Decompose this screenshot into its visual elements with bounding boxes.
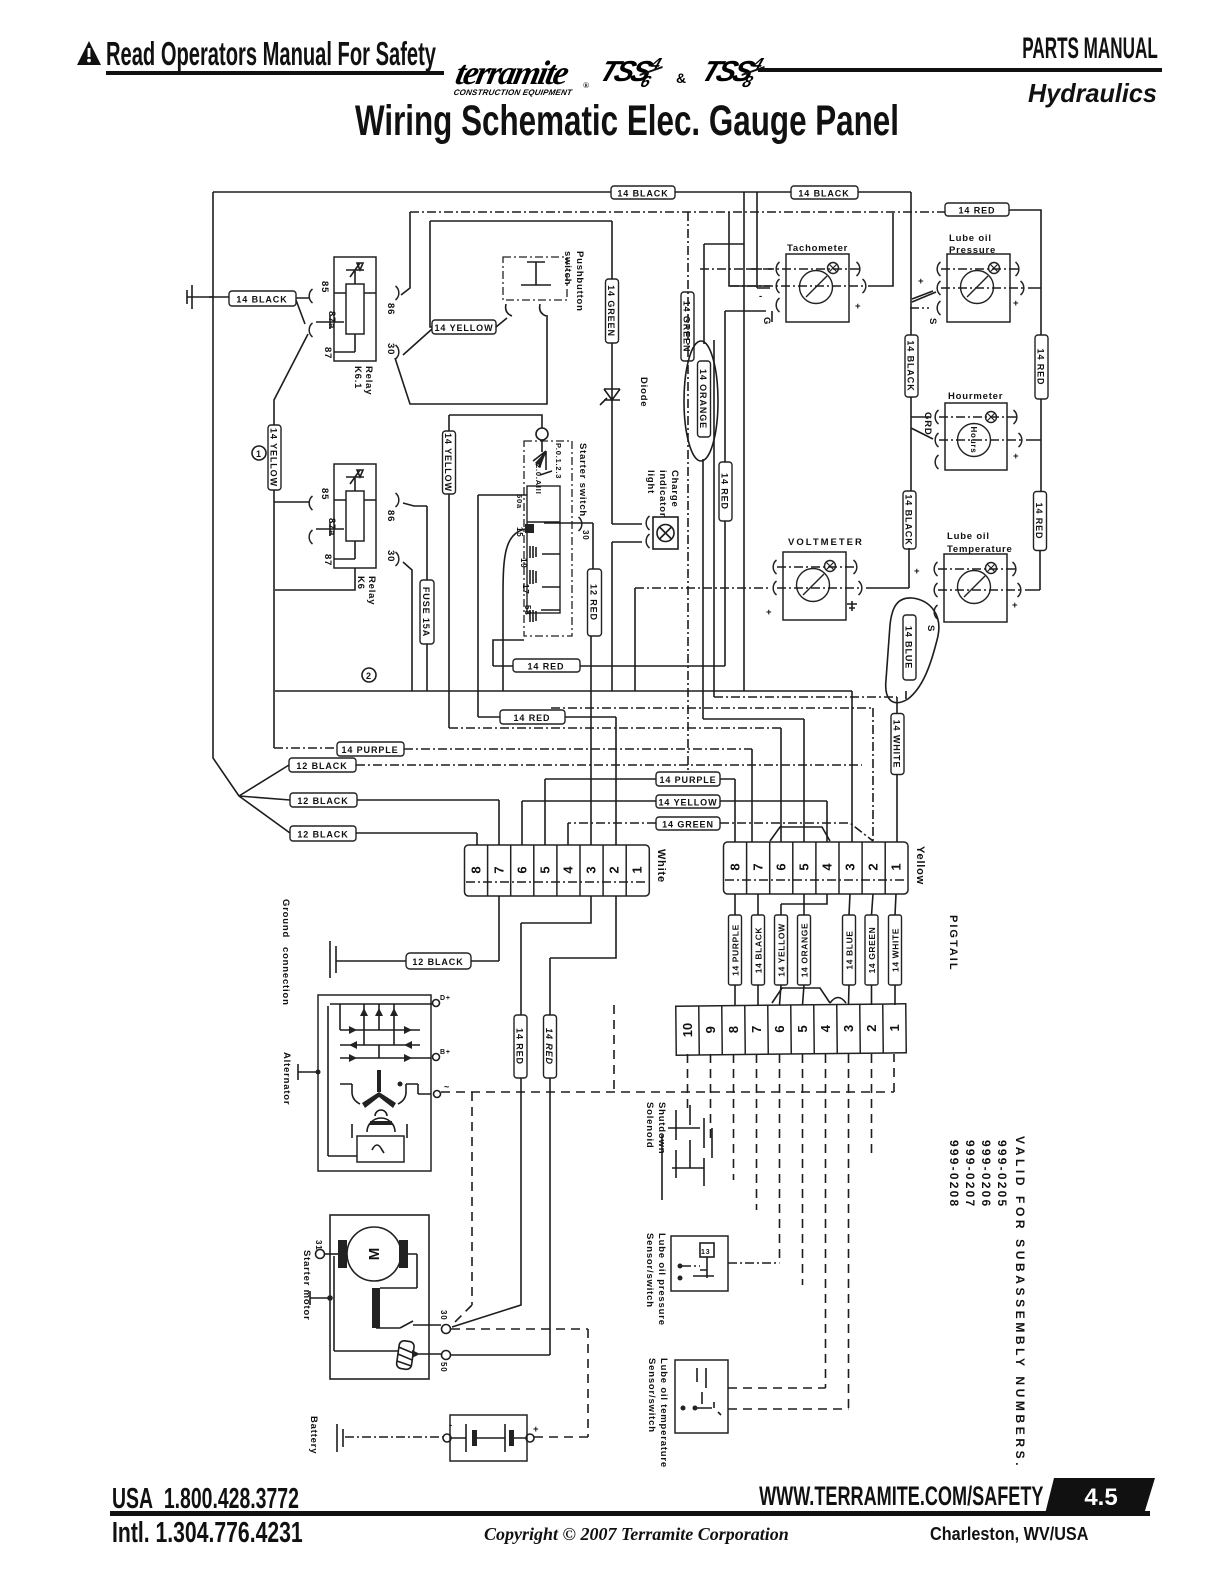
svg-text:14 RED: 14 RED	[544, 1028, 554, 1065]
svg-text:Diode: Diode	[638, 377, 649, 407]
svg-text:12 BLACK: 12 BLACK	[412, 957, 463, 967]
svg-text:4: 4	[820, 863, 835, 871]
svg-text:Starter switch: Starter switch	[577, 443, 588, 517]
svg-text:14 BLUE: 14 BLUE	[904, 626, 914, 669]
svg-text:14 GREEN: 14 GREEN	[662, 820, 714, 830]
svg-text:85: 85	[319, 488, 330, 500]
svg-text:-: -	[449, 1420, 453, 1431]
svg-text:14 RED: 14 RED	[1036, 349, 1046, 386]
svg-text:2: 2	[864, 1024, 879, 1031]
svg-text:5: 5	[795, 1025, 810, 1032]
svg-text:+: +	[1013, 298, 1019, 309]
svg-text:4: 4	[818, 1024, 833, 1032]
svg-text:Starter motor: Starter motor	[301, 1250, 312, 1321]
svg-text:14 BLACK: 14 BLACK	[904, 494, 914, 545]
svg-text:87a: 87a	[326, 311, 337, 329]
svg-text:6: 6	[772, 1025, 787, 1032]
svg-text:FUSE 15A: FUSE 15A	[421, 587, 431, 637]
svg-text:86: 86	[385, 303, 396, 315]
svg-text:12 RED: 12 RED	[589, 584, 599, 621]
svg-text:VALID FOR SUBASSEMBLY NUMBERS.: VALID FOR SUBASSEMBLY NUMBERS.	[1013, 1136, 1027, 1469]
svg-text:14 PURPLE: 14 PURPLE	[341, 745, 398, 755]
svg-text:1: 1	[256, 449, 262, 459]
svg-text:14 RED: 14 RED	[720, 473, 730, 510]
svg-text:Lube oil temperature: Lube oil temperature	[658, 1358, 669, 1468]
svg-text:switch: switch	[562, 251, 573, 285]
svg-text:17: 17	[521, 584, 530, 595]
svg-text:14 BLACK: 14 BLACK	[798, 189, 849, 199]
svg-text:31: 31	[314, 1240, 323, 1251]
svg-text:14 BLACK: 14 BLACK	[236, 295, 287, 305]
svg-text:2: 2	[866, 863, 881, 870]
svg-text:14 GREEN: 14 GREEN	[867, 927, 877, 974]
svg-text:14 BLUE: 14 BLUE	[845, 930, 855, 969]
svg-text:8: 8	[726, 1026, 741, 1033]
svg-text:14 RED: 14 RED	[959, 206, 996, 216]
svg-text:8: 8	[728, 863, 743, 870]
svg-text:86: 86	[385, 510, 396, 522]
svg-text:50: 50	[439, 1362, 448, 1373]
svg-text:14 YELLOW: 14 YELLOW	[777, 923, 787, 977]
svg-text:Solenoid: Solenoid	[644, 1102, 655, 1149]
svg-text:4.5: 4.5	[1084, 1484, 1117, 1511]
svg-text:2: 2	[366, 671, 372, 681]
svg-text:6: 6	[515, 866, 530, 873]
svg-text:13: 13	[701, 1249, 710, 1256]
svg-text:999-0205: 999-0205	[995, 1140, 1009, 1208]
svg-text:7: 7	[492, 866, 507, 873]
svg-text:VOLTMETER: VOLTMETER	[788, 537, 864, 548]
svg-text:K6: K6	[355, 576, 366, 590]
svg-text:4: 4	[561, 866, 576, 874]
svg-text:14 RED: 14 RED	[514, 713, 551, 723]
svg-text:Tachometer: Tachometer	[787, 243, 848, 254]
svg-text:999-0208: 999-0208	[947, 1140, 961, 1208]
svg-text:10: 10	[680, 1023, 695, 1038]
svg-text:30: 30	[439, 1310, 448, 1321]
svg-text:14 RED: 14 RED	[515, 1028, 525, 1065]
svg-text:87: 87	[322, 554, 333, 566]
svg-text:14 ORANGE: 14 ORANGE	[800, 923, 810, 978]
svg-text:3: 3	[843, 863, 858, 870]
svg-text:Lube oil: Lube oil	[949, 233, 992, 244]
svg-text:14 YELLOW: 14 YELLOW	[659, 798, 718, 808]
svg-text:PIGTAIL: PIGTAIL	[947, 915, 959, 972]
svg-text:87a: 87a	[326, 518, 337, 536]
svg-text:14 RED: 14 RED	[528, 662, 565, 672]
svg-text:9: 9	[703, 1026, 718, 1033]
svg-text:+: +	[1013, 451, 1019, 462]
svg-text:K6.1: K6.1	[352, 366, 363, 389]
svg-text:Hourmeter: Hourmeter	[948, 391, 1003, 402]
svg-text:light: light	[645, 470, 656, 494]
svg-text:1: 1	[887, 1024, 902, 1031]
svg-text:58: 58	[523, 605, 532, 616]
svg-text:Battery: Battery	[308, 1416, 319, 1454]
svg-text:14 ORANGE: 14 ORANGE	[698, 369, 708, 429]
svg-text:14 BLACK: 14 BLACK	[617, 189, 668, 199]
svg-text:2: 2	[607, 866, 622, 873]
svg-text:Sensor/switch: Sensor/switch	[644, 1233, 655, 1308]
svg-text:+: +	[1012, 600, 1018, 611]
svg-text:D+: D+	[440, 995, 451, 1002]
svg-text:14 PURPLE: 14 PURPLE	[731, 924, 741, 976]
svg-text:7: 7	[751, 863, 766, 870]
svg-text:5: 5	[538, 866, 553, 873]
svg-text:12 BLACK: 12 BLACK	[296, 761, 347, 771]
svg-text:~: ~	[444, 1082, 450, 1092]
svg-text:-: -	[759, 291, 763, 302]
svg-text:999-0207: 999-0207	[963, 1140, 977, 1208]
svg-text:indicator: indicator	[657, 470, 668, 517]
svg-text:14 YELLOW: 14 YELLOW	[269, 428, 279, 487]
svg-text:2.0.AIII: 2.0.AIII	[534, 464, 543, 495]
svg-text:+: +	[766, 607, 772, 618]
svg-text:Relay: Relay	[363, 366, 374, 395]
svg-text:999-0206: 999-0206	[979, 1140, 993, 1208]
svg-text:Sensor/switch: Sensor/switch	[646, 1358, 657, 1433]
svg-text:M: M	[366, 1248, 383, 1261]
svg-text:1: 1	[889, 863, 904, 870]
svg-text:5: 5	[797, 863, 812, 870]
svg-text:P.0.1.2.3: P.0.1.2.3	[554, 443, 563, 479]
svg-text:30: 30	[385, 550, 396, 562]
svg-text:14 GREEN: 14 GREEN	[682, 301, 692, 353]
svg-text:+: +	[918, 276, 924, 287]
svg-text:S: S	[925, 625, 936, 632]
svg-text:50a: 50a	[515, 494, 524, 509]
svg-text:Alternator: Alternator	[281, 1052, 292, 1105]
svg-text:14 RED: 14 RED	[1034, 503, 1044, 540]
svg-text:14 YELLOW: 14 YELLOW	[443, 433, 453, 492]
svg-text:S: S	[927, 318, 938, 325]
svg-text:+: +	[533, 1424, 539, 1435]
svg-text:+: +	[855, 301, 861, 312]
svg-text:Yellow: Yellow	[914, 846, 926, 885]
svg-text:14 YELLOW: 14 YELLOW	[435, 323, 494, 333]
svg-text:Lube oil pressure: Lube oil pressure	[656, 1233, 667, 1326]
svg-text:14 BLACK: 14 BLACK	[906, 340, 916, 391]
svg-text:3: 3	[584, 866, 599, 873]
svg-text:GRD: GRD	[922, 412, 933, 436]
svg-text:Lube oil: Lube oil	[947, 531, 990, 542]
svg-text:Relay: Relay	[366, 576, 377, 605]
svg-text:connection: connection	[280, 947, 291, 1006]
svg-text:14 WHITE: 14 WHITE	[891, 928, 901, 972]
svg-text:85: 85	[319, 281, 330, 293]
svg-text:30: 30	[581, 530, 590, 541]
svg-text:6: 6	[774, 863, 789, 870]
svg-text:14 WHITE: 14 WHITE	[892, 720, 902, 769]
svg-text:Charge: Charge	[669, 470, 680, 508]
svg-text:87: 87	[322, 347, 333, 359]
svg-text:1: 1	[630, 866, 645, 873]
svg-text:Ground: Ground	[280, 899, 291, 938]
svg-text:14 BLACK: 14 BLACK	[754, 927, 764, 974]
svg-text:+: +	[914, 566, 920, 577]
svg-text:19: 19	[519, 558, 528, 569]
svg-text:White: White	[655, 849, 667, 883]
svg-text:Shutdown: Shutdown	[656, 1102, 667, 1154]
svg-text:3: 3	[841, 1025, 856, 1032]
svg-text:30: 30	[385, 343, 396, 355]
svg-text:B+: B+	[440, 1049, 451, 1056]
svg-text:G: G	[761, 317, 772, 325]
svg-text:7: 7	[749, 1026, 764, 1033]
svg-text:Pushbutton: Pushbutton	[574, 251, 585, 312]
svg-text:14 PURPLE: 14 PURPLE	[659, 775, 716, 785]
svg-text:12 BLACK: 12 BLACK	[297, 796, 348, 806]
svg-text:12 BLACK: 12 BLACK	[297, 830, 348, 840]
svg-text:8: 8	[469, 866, 484, 873]
svg-text:14 GREEN: 14 GREEN	[606, 285, 616, 337]
